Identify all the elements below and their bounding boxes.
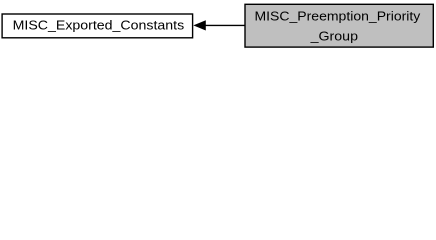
node MISC_Preemption_Priority_Group	[245, 4, 433, 47]
svg-text:_Group: _Group	[310, 28, 358, 43]
svg-text:MISC_Preemption_Priority: MISC_Preemption_Priority	[255, 9, 421, 24]
svg-text:MISC_Exported_Constants: MISC_Exported_Constants	[13, 18, 185, 33]
node MISC_Exported_Constants	[2, 14, 193, 38]
edge wire MISC_Preemption_Priority_Group -> MISC_Exported_Constants	[194, 21, 245, 30]
arrowhead	[194, 21, 205, 30]
